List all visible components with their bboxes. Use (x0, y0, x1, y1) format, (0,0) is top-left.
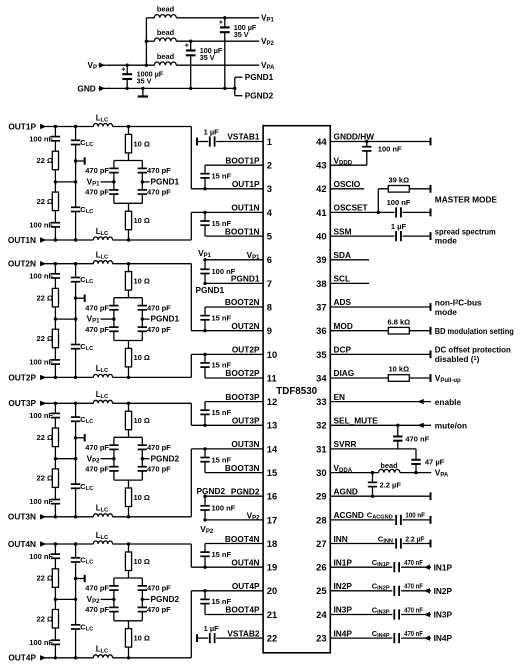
svg-text:AGND: AGND (334, 486, 358, 496)
svg-text:MASTER MODE: MASTER MODE (435, 195, 498, 205)
wire column A (54, 544, 57, 658)
pin 1 label VSTAB1 (227, 132, 260, 142)
svg-text:PGND2: PGND2 (245, 91, 274, 101)
svg-text:470 pF: 470 pF (147, 584, 171, 593)
pin 8 label BOOT2N (225, 297, 260, 307)
node PGND2 bridge mid-right (141, 453, 180, 463)
svg-text:35 V: 35 V (137, 76, 152, 85)
wire OUT2N to pin9 (191, 330, 263, 332)
capacitor 2.2uF VDDA (367, 473, 401, 497)
resistor 10ohm bottom (125, 488, 150, 507)
svg-text:OUT2P: OUT2P (8, 372, 36, 382)
svg-text:PGND2: PGND2 (231, 486, 260, 496)
svg-text:27: 27 (316, 538, 326, 549)
node PGND1 (below pin7) (196, 285, 225, 295)
capacitor 470pF lower-right (137, 325, 171, 334)
svg-text:10 Ω: 10 Ω (134, 216, 150, 225)
svg-text:2: 2 (267, 160, 272, 171)
wire bead to VPA (400, 472, 431, 474)
inductor LLC bottom (93, 227, 112, 240)
capacitor 470pF upper-left (85, 443, 119, 452)
terminal stub (76, 434, 85, 441)
ground (138, 87, 148, 97)
svg-text:5: 5 (267, 231, 272, 242)
svg-text:22: 22 (267, 633, 277, 644)
label MASTER MODE (435, 195, 498, 205)
svg-text:100 nF: 100 nF (405, 511, 425, 520)
wire column B (55, 127, 77, 241)
capacitor 470pF upper-left (85, 584, 119, 593)
capacitor 100nF VDDD (330, 142, 402, 167)
svg-text:OUT3N: OUT3N (231, 439, 259, 449)
wire bridge top (114, 437, 142, 458)
pin 30 VDDA (330, 463, 378, 475)
node VPA (right) (435, 468, 449, 479)
capacitor 470pF lower-left (85, 188, 119, 197)
pin 35 DCP (330, 345, 430, 359)
svg-text:SSM: SSM (334, 226, 352, 236)
svg-text:470 pF: 470 pF (147, 443, 171, 452)
wire OUT1P to pin3 (191, 188, 263, 190)
svg-text:IN1P: IN1P (334, 557, 353, 567)
svg-text:PGND1: PGND1 (196, 285, 225, 295)
capacitor 15nF BOOT4N/OUT4N (200, 544, 263, 569)
svg-text:37: 37 (316, 301, 326, 312)
svg-text:IN4P: IN4P (434, 633, 453, 643)
wire column C (128, 403, 130, 517)
svg-text:6.8 kΩ: 6.8 kΩ (387, 317, 410, 326)
capacitor CIN3P 470nF (330, 605, 431, 620)
svg-text:22 Ω: 22 Ω (37, 197, 53, 206)
svg-text:38: 38 (316, 278, 326, 289)
wire OUT3P to pin13 (191, 424, 263, 426)
inductor LLC bottom (93, 364, 112, 377)
svg-text:BOOT3P: BOOT3P (225, 392, 260, 402)
wire OUT1P top rail (40, 125, 191, 128)
inductor bead (VP1) (154, 5, 176, 18)
node IN3P input (434, 610, 453, 620)
svg-text:26: 26 (316, 562, 326, 573)
svg-text:35: 35 (316, 349, 326, 360)
svg-text:1 µF: 1 µF (391, 222, 407, 231)
capacitor 15nF OUT1N/BOOT1N (200, 211, 263, 236)
wire column A (54, 264, 57, 378)
capacitor CLC top (70, 275, 93, 285)
resistor 10ohm top (125, 134, 150, 153)
resistor 10ohm top (125, 552, 150, 571)
svg-text:41: 41 (316, 207, 326, 218)
svg-text:13: 13 (267, 420, 277, 431)
capacitor CLC bottom (70, 482, 93, 492)
resistor 39k OSCSET (377, 175, 431, 214)
capacitor 1uF VSTAB1 (197, 127, 263, 147)
label non-I2C-bus mode (435, 298, 482, 317)
svg-text:17: 17 (267, 514, 277, 525)
node OUT3N input (8, 512, 46, 522)
svg-text:470 pF: 470 pF (147, 166, 171, 175)
capacitor CACGND 100nF (330, 510, 430, 525)
wire VP2 rail left (146, 40, 154, 42)
node VP1 (261, 13, 275, 24)
svg-text:22 Ω: 22 Ω (37, 433, 53, 442)
svg-text:22 Ω: 22 Ω (37, 334, 53, 343)
label mute/on (435, 420, 467, 430)
node VP input (87, 60, 110, 71)
wire OUT3N bottom rail (40, 515, 191, 518)
svg-text:10 Ω: 10 Ω (134, 277, 150, 286)
svg-text:100 nF: 100 nF (29, 272, 53, 281)
capacitor 470pF lower-left (85, 325, 119, 334)
svg-text:15 nF: 15 nF (212, 219, 232, 228)
wire OUT2P corner (190, 354, 192, 377)
resistor 22ohm bottom (37, 610, 59, 629)
capacitor 100uF 35V (VP2) (185, 40, 223, 91)
capacitor 100nF bottom (29, 220, 60, 229)
node PGND1 (245, 72, 274, 82)
inductor LLC bottom (93, 645, 112, 658)
svg-text:100 nF: 100 nF (29, 411, 53, 420)
svg-text:9: 9 (267, 325, 272, 336)
svg-text:34: 34 (316, 372, 327, 383)
capacitor 100nF top (29, 552, 60, 561)
pin 4 label OUT1N (231, 203, 259, 213)
node PGND2 (245, 91, 274, 101)
node GND input (77, 83, 110, 93)
capacitor CLC bottom (70, 205, 93, 215)
svg-text:100 nF: 100 nF (29, 497, 53, 506)
capacitor 100nF bottom (29, 638, 60, 647)
svg-text:470 pF: 470 pF (85, 584, 109, 593)
node P2 bridge mid-left (87, 594, 116, 605)
svg-text:100 nF: 100 nF (212, 504, 236, 513)
inductor LLC top (93, 390, 112, 403)
wire column C (128, 127, 130, 241)
svg-text:25: 25 (316, 585, 326, 596)
svg-text:15 nF: 15 nF (212, 550, 232, 559)
svg-text:SDA: SDA (334, 250, 352, 260)
pin 2 label BOOT1P (225, 155, 260, 165)
resistor 6.8k MOD (330, 317, 430, 334)
svg-text:OUT4P: OUT4P (8, 653, 36, 663)
svg-text:22 Ω: 22 Ω (37, 614, 53, 623)
capacitor CINN 2.2uF (330, 534, 430, 549)
svg-text:PGND2: PGND2 (151, 594, 180, 604)
pin numbers 1-44 (267, 136, 328, 644)
resistor 10ohm bottom (125, 348, 150, 367)
svg-text:15: 15 (267, 467, 277, 478)
wire column A (54, 403, 57, 517)
inductor LLC top (93, 251, 112, 264)
svg-text:47 µF: 47 µF (425, 458, 445, 467)
pin 16 label PGND2 (231, 486, 260, 496)
pin 42 OSCIO (330, 179, 364, 189)
svg-text:bead: bead (157, 28, 175, 37)
pin 44 GNDD/HW (330, 132, 430, 146)
pin 6 label VP1 (247, 250, 261, 261)
inductor LLC bottom (93, 504, 112, 517)
node IN1P input (434, 562, 453, 572)
svg-text:470 pF: 470 pF (85, 464, 109, 473)
inductor bead VDDA (379, 461, 400, 473)
resistor 10ohm bottom (125, 211, 150, 230)
pin 32 SEL_MUTE (330, 416, 431, 429)
capacitor 470pF upper-right (137, 584, 171, 593)
svg-text:10 Ω: 10 Ω (134, 557, 150, 566)
svg-text:10 Ω: 10 Ω (134, 353, 150, 362)
svg-text:470 nF: 470 nF (404, 584, 423, 591)
node PGND1 bridge mid-right (141, 314, 180, 324)
svg-text:470 pF: 470 pF (147, 188, 171, 197)
capacitor 470pF upper-left (85, 303, 119, 312)
wire OUT1N to pin4 (191, 211, 263, 213)
wire OUT2N top rail (40, 262, 191, 265)
svg-text:10 Ω: 10 Ω (134, 416, 150, 425)
svg-text:35 V: 35 V (200, 53, 215, 62)
pin 12 label BOOT3P (225, 392, 260, 402)
svg-text:bead: bead (157, 52, 175, 61)
capacitor 100uF 35V (VP1) (219, 16, 257, 90)
svg-text:mode: mode (435, 236, 458, 246)
svg-text:30: 30 (316, 467, 326, 478)
capacitor 470pF upper-right (137, 443, 171, 452)
svg-text:10 Ω: 10 Ω (134, 634, 150, 643)
svg-text:disabled (1): disabled (1) (435, 354, 480, 364)
svg-text:GND: GND (77, 83, 95, 93)
wire bridge bottom (114, 599, 142, 620)
svg-text:OUT2N: OUT2N (231, 321, 259, 331)
wire column B (55, 264, 77, 378)
node VP2 (below pin17) (200, 524, 214, 535)
wire OUT3N corner (190, 449, 192, 517)
svg-text:DCP: DCP (334, 345, 352, 355)
wire GND rail (108, 87, 235, 89)
wire bridge bottom (114, 319, 142, 340)
node P2 bridge mid-left (87, 453, 116, 464)
svg-text:100 nF: 100 nF (29, 220, 53, 229)
svg-text:OSCIO: OSCIO (334, 179, 361, 189)
svg-text:mute/on: mute/on (435, 420, 467, 430)
svg-text:15 nF: 15 nF (212, 361, 232, 370)
svg-text:PGND2: PGND2 (197, 486, 226, 496)
svg-text:22 Ω: 22 Ω (37, 574, 53, 583)
svg-text:43: 43 (316, 160, 326, 171)
svg-text:22 Ω: 22 Ω (37, 474, 53, 483)
wire column B (55, 544, 77, 658)
svg-text:100 nF: 100 nF (29, 134, 53, 143)
svg-text:6: 6 (267, 254, 272, 265)
svg-text:OSCSET: OSCSET (334, 203, 368, 213)
svg-text:11: 11 (267, 372, 277, 383)
wire column C (128, 264, 130, 378)
pin 3 label OUT1P (232, 179, 260, 189)
node VPA (261, 60, 275, 71)
svg-text:24: 24 (316, 609, 327, 620)
svg-text:470 nF: 470 nF (404, 607, 423, 614)
wire OUT4N to pin19 (191, 566, 263, 568)
capacitor 470nF SVRR (393, 425, 430, 449)
svg-text:100 nF: 100 nF (29, 638, 53, 647)
svg-text:22 Ω: 22 Ω (37, 293, 53, 302)
capacitor 47uF VPA (411, 449, 445, 474)
svg-text:EN: EN (334, 392, 346, 402)
node OUT4N input (8, 539, 46, 549)
pin 11 label BOOT2P (225, 368, 260, 378)
svg-text:SVRR: SVRR (334, 439, 357, 449)
pin 17 label VP2 (247, 510, 261, 521)
capacitor 470pF upper-left (85, 166, 119, 175)
capacitor 100nF bottom (29, 497, 60, 506)
svg-text:MOD: MOD (334, 321, 353, 331)
pin 22 label VSTAB2 (227, 628, 260, 638)
svg-text:23: 23 (316, 633, 326, 644)
junction riser-VP (145, 63, 148, 66)
svg-text:VSTAB1: VSTAB1 (227, 132, 260, 142)
svg-text:28: 28 (316, 514, 326, 525)
svg-text:bead: bead (380, 461, 398, 470)
wire bridge top (114, 578, 142, 599)
svg-text:IN4P: IN4P (334, 628, 353, 638)
capacitor 100nF bottom (29, 358, 60, 367)
svg-text:SCL: SCL (334, 274, 351, 284)
terminal stub (76, 295, 85, 302)
svg-text:IN3P: IN3P (434, 610, 453, 620)
svg-text:470 pF: 470 pF (85, 605, 109, 614)
svg-text:OUT3N: OUT3N (8, 512, 36, 522)
resistor 22ohm top (37, 428, 59, 447)
terminal stub (76, 575, 85, 582)
wire OUT4P to pin20 (191, 590, 263, 592)
svg-text:44: 44 (316, 136, 327, 147)
svg-text:100 nF: 100 nF (212, 267, 236, 276)
wire VP2 rail right (176, 40, 259, 42)
svg-text:470 nF: 470 nF (405, 434, 429, 443)
svg-text:OUT1N: OUT1N (8, 235, 36, 245)
node PGND2 (left of pin16) (197, 486, 226, 496)
svg-text:100 nF: 100 nF (378, 145, 402, 154)
resistor 10ohm top (125, 272, 150, 291)
svg-text:470 pF: 470 pF (85, 166, 109, 175)
pin 15 label BOOT3N (225, 463, 260, 473)
svg-text:SEL_MUTE: SEL_MUTE (334, 416, 379, 426)
svg-text:3: 3 (267, 183, 272, 194)
svg-text:PGND1: PGND1 (151, 314, 180, 324)
wire bridge top (114, 298, 142, 319)
resistor 22ohm bottom (37, 469, 59, 488)
resistor 10ohm top (125, 411, 150, 430)
capacitor 15nF OUT4P/BOOT4P (200, 589, 263, 614)
svg-text:470 pF: 470 pF (85, 443, 109, 452)
capacitor 100nF PGND2/VP2 (200, 495, 263, 522)
capacitor 470pF lower-left (85, 464, 119, 473)
svg-text:20: 20 (267, 585, 277, 596)
resistor 22ohm top (37, 569, 59, 588)
svg-text:+: + (121, 66, 125, 73)
label spread spectrum mode (435, 227, 496, 246)
capacitor CIN1P 470nF (330, 557, 431, 572)
svg-text:TDF8530: TDF8530 (276, 386, 317, 397)
svg-text:33: 33 (316, 396, 326, 407)
svg-text:IN2P: IN2P (434, 586, 453, 596)
resistor 10k DIAG (330, 365, 430, 382)
wire OUT4N top rail (40, 542, 191, 545)
node OUT1N input (8, 235, 46, 245)
wire riser VP to VP1 (145, 18, 147, 65)
svg-text:GNDD/HW: GNDD/HW (334, 132, 375, 142)
svg-text:470 nF: 470 nF (404, 560, 423, 567)
svg-text:22 Ω: 22 Ω (37, 156, 53, 165)
capacitor CIN4P 470nF (330, 628, 431, 643)
capacitor CLC top (70, 138, 93, 148)
capacitor 1000uF 35V (121, 63, 163, 90)
wire bridge bottom (114, 459, 142, 480)
svg-text:31: 31 (316, 443, 326, 454)
pin 29 AGND (330, 486, 430, 500)
svg-text:470 pF: 470 pF (147, 605, 171, 614)
svg-text:DIAG: DIAG (334, 368, 355, 378)
capacitor 1uF VSTAB2 (197, 624, 263, 644)
svg-text:15 nF: 15 nF (212, 597, 232, 606)
svg-text:32: 32 (316, 420, 326, 431)
svg-text:bead: bead (157, 5, 175, 14)
svg-text:35 V: 35 V (234, 30, 249, 39)
wire OUT4N corner (190, 544, 192, 567)
svg-text:2.2 µF: 2.2 µF (405, 534, 425, 543)
svg-text:470 pF: 470 pF (147, 325, 171, 334)
svg-text:15 nF: 15 nF (212, 313, 232, 322)
svg-text:OUT4N: OUT4N (8, 539, 36, 549)
svg-text:36: 36 (316, 325, 326, 336)
op-amp U1 TDF8530 body (263, 126, 330, 653)
capacitor CLC top (70, 415, 93, 425)
pin 10 label OUT2P (232, 345, 260, 355)
wire OUT1P corner (190, 127, 192, 189)
wire OUT4P bottom rail (40, 656, 191, 659)
wire bridge bottom (114, 182, 142, 203)
wire OUT1N corner (190, 212, 192, 240)
inductor LLC top (93, 531, 112, 544)
inductor bead (VPA) (154, 52, 176, 65)
svg-text:PGND1: PGND1 (151, 177, 180, 187)
pin 21 label BOOT4P (225, 605, 260, 615)
svg-text:BOOT4N: BOOT4N (225, 534, 260, 544)
capacitor 15nF OUT2P/BOOT2P (200, 353, 263, 378)
node OUT1P input (8, 121, 46, 131)
wire VPA rail right (176, 64, 259, 66)
svg-text:470 pF: 470 pF (85, 188, 109, 197)
svg-text:10 kΩ: 10 kΩ (388, 365, 409, 374)
node PGND1 bridge mid-right (141, 177, 180, 187)
svg-text:10 Ω: 10 Ω (134, 493, 150, 502)
svg-text:INN: INN (334, 534, 348, 544)
capacitor 1uF SSM (330, 222, 430, 242)
svg-text:4: 4 (267, 207, 273, 218)
svg-text:OUT1N: OUT1N (231, 203, 259, 213)
svg-text:OUT3P: OUT3P (8, 398, 36, 408)
svg-text:OUT1P: OUT1P (8, 121, 36, 131)
wire OUT2P to pin10 (191, 353, 263, 355)
svg-text:ACGND: ACGND (334, 510, 364, 520)
pin 38 SCL (330, 274, 369, 284)
capacitor 470pF lower-left (85, 605, 119, 614)
svg-text:39 kΩ: 39 kΩ (388, 175, 409, 184)
pin 39 SDA (330, 250, 369, 260)
svg-text:OUT4N: OUT4N (231, 557, 259, 567)
node VPull-up (435, 373, 461, 384)
svg-text:18: 18 (267, 538, 277, 549)
pin 9 label OUT2N (231, 321, 259, 331)
svg-text:10 Ω: 10 Ω (134, 139, 150, 148)
node VP2 (261, 36, 275, 47)
